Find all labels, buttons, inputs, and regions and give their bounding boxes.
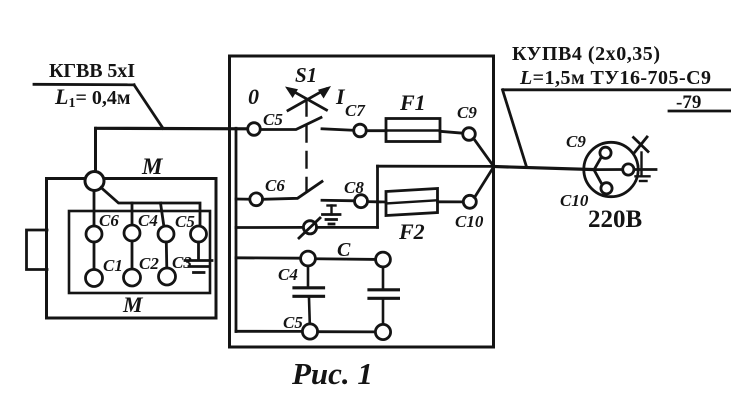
svg-text:С3: С3 (172, 253, 192, 272)
wire fixed contact to C7 (322, 129, 354, 131)
svg-text:С2: С2 (139, 254, 159, 273)
wire grounding contact to riser (317, 226, 378, 229)
switch S1 position arrow to I (288, 86, 331, 111)
switch unit box (230, 56, 494, 347)
wire bus to capacitor block bottom (236, 330, 302, 333)
svg-text:КГВВ 5хI: КГВВ 5хI (49, 60, 135, 82)
contact C5 circle (248, 123, 261, 136)
svg-text:С10: С10 (455, 212, 484, 231)
ground symbol in motor box (185, 261, 212, 273)
svg-text:С8: С8 (344, 178, 364, 197)
svg-text:М: М (122, 292, 144, 317)
wire feed horizontal to contact C5 (96, 127, 248, 131)
svg-text:F1: F1 (399, 90, 426, 115)
switch blade from C6 (263, 182, 322, 200)
wire between capacitor bottom circles (318, 330, 376, 333)
ground symbol at switch (323, 206, 341, 225)
svg-text:С7: С7 (345, 101, 366, 120)
wire leader from КГВВ label to feed wire (134, 85, 163, 129)
terminal C5 (158, 226, 174, 242)
wire leader from КУПВ label to output wire (503, 90, 527, 167)
contact C7 circle (354, 124, 367, 137)
svg-text:220В: 220В (588, 206, 642, 233)
node junction circle on motor box (85, 172, 104, 191)
wire fixed contact to C8 (322, 199, 355, 202)
svg-text:С10: С10 (560, 191, 589, 210)
svg-text:0: 0 (248, 84, 259, 109)
wire C9 diagonal to output node (474, 138, 494, 166)
wire fork to pin C9 (594, 157, 602, 170)
node C4 capacitor top-left circle (301, 251, 316, 266)
svg-text:S1: S1 (295, 63, 317, 87)
wire internal bus vertical (235, 128, 238, 331)
plug pin right circle (623, 164, 634, 175)
motor shaft tab (27, 230, 48, 270)
underline of -79 (669, 110, 731, 113)
capacitor right symbol (369, 267, 398, 325)
node capacitor bottom-left circle (302, 324, 317, 339)
wire C6 to C1 (93, 242, 96, 270)
wire fork to right pin (594, 168, 622, 171)
label X (ground pin) (634, 137, 649, 153)
wire C10 diagonal to output node (475, 167, 494, 198)
node capacitor top-right circle (376, 252, 391, 267)
svg-text:F2: F2 (398, 219, 425, 244)
contact C6 circle (250, 193, 263, 206)
terminal C2 (124, 269, 141, 286)
wire output node to plug (494, 167, 594, 170)
terminal C1 (86, 270, 103, 287)
wire bus stub to C6 (236, 198, 250, 201)
terminal C4 (124, 225, 140, 241)
wire F1 to C9 (440, 131, 463, 133)
wire bus from junction to terminals C4 C5 and earth (101, 188, 200, 227)
wire bus to grounding contact (236, 226, 303, 229)
motor terminal box inner rect (69, 211, 210, 293)
wire C7 to F1 (366, 129, 386, 132)
svg-text:М: М (141, 154, 164, 179)
svg-text:КУПВ4 (2х0,35): КУПВ4 (2х0,35) (512, 43, 660, 65)
plug pin C10 circle (601, 183, 612, 194)
dashed linkage of S1 (305, 100, 307, 190)
wire drop to terminal C4 (131, 203, 134, 225)
wire from right pin to ground pin (634, 168, 656, 171)
node capacitor bottom-right circle (375, 324, 390, 339)
svg-text:L1= 0,4м: L1= 0,4м (54, 84, 130, 111)
fuse F2 (386, 189, 438, 216)
terminal earth circle (191, 226, 207, 242)
wire C8 to F2 (368, 200, 387, 203)
svg-text:С4: С4 (278, 265, 298, 284)
switch blade from C5 (260, 118, 321, 130)
motor M outer box (47, 179, 217, 319)
terminal C6 (86, 226, 102, 242)
fuse F1 (386, 119, 440, 142)
svg-text:С9: С9 (457, 103, 477, 122)
svg-text:Рис. 1: Рис. 1 (291, 356, 373, 391)
wire junction to terminal C6 (93, 191, 96, 227)
wire C4 to C2 (131, 241, 134, 270)
grounding contact circle with slash (299, 218, 320, 238)
contact C10 circle (463, 195, 476, 208)
switch S1 position arrow to 0 (285, 87, 327, 111)
terminal C3 (159, 268, 176, 285)
capacitor C4 left symbol (294, 266, 324, 324)
wire C5 to C3 (165, 242, 168, 269)
contact C8 circle (355, 195, 368, 208)
plug pin C9 circle (600, 147, 611, 158)
underline of КУПВ label (503, 88, 731, 91)
wire earth stem (197, 242, 200, 260)
svg-text:С5: С5 (283, 313, 303, 332)
ground pin stem (640, 153, 642, 175)
wire F2 to C10 (438, 200, 464, 203)
contact C9 circle (463, 128, 476, 141)
wire horizontal to output node (378, 165, 494, 168)
svg-text:С1: С1 (103, 256, 123, 275)
ground pin bars (636, 176, 650, 181)
wire feed vertical drop to motor junction (94, 128, 97, 172)
svg-text:L=1,5м ТУ16-705-С9: L=1,5м ТУ16-705-С9 (519, 67, 711, 89)
underline of КГВВ label (34, 83, 134, 86)
svg-text:С6: С6 (265, 176, 285, 195)
wire between capacitor top circles (315, 257, 375, 260)
plug connector body circle (584, 142, 638, 196)
svg-text:С6: С6 (99, 211, 119, 230)
wire bus to capacitor block top (236, 256, 301, 259)
svg-text:С5: С5 (263, 110, 283, 129)
wire fork to pin C10 (594, 170, 602, 185)
wire drop to terminal C5 (161, 203, 165, 227)
svg-text:С4: С4 (138, 211, 158, 230)
wire riser up from grounding branch (376, 166, 379, 227)
svg-text:С9: С9 (566, 132, 586, 151)
